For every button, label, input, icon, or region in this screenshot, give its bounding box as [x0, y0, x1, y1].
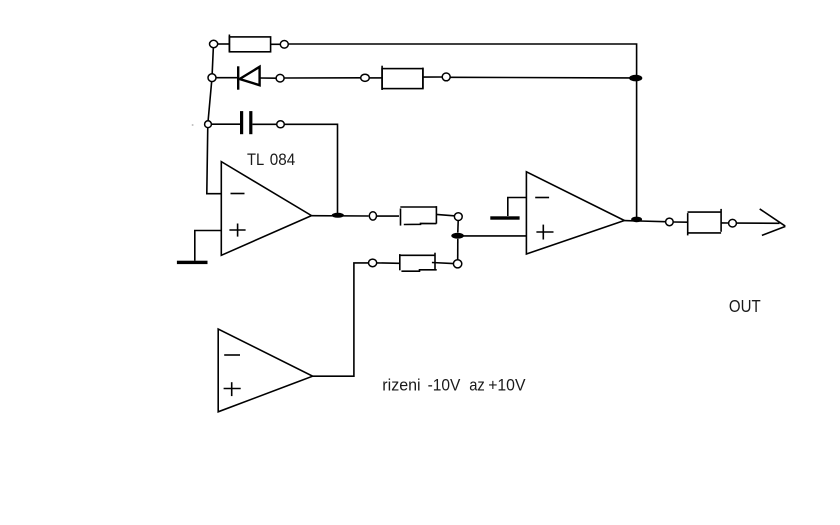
wire R4 to node L	[432, 263, 454, 264]
wire U2 inverting input to ground	[508, 198, 527, 217]
wire R3 to node J	[436, 214, 454, 215]
stray mark	[192, 124, 194, 125]
resistor R5	[688, 209, 722, 236]
node J	[454, 213, 462, 221]
wire node E to R2	[369, 77, 382, 79]
node B	[280, 41, 288, 49]
node G	[205, 121, 212, 128]
node I	[369, 212, 376, 220]
node N	[666, 218, 674, 226]
capacitor C1	[242, 111, 251, 134]
wire node B along top and down right bus to U2 output	[288, 44, 636, 219]
junction dot K	[451, 233, 464, 239]
ground	[177, 261, 208, 264]
svg-text:az: az	[469, 375, 485, 394]
node C	[208, 74, 216, 82]
node F	[442, 73, 450, 81]
wire C1 to node H	[253, 123, 277, 125]
wire node J down to junction K	[457, 221, 459, 233]
wire node N to R5	[674, 221, 689, 223]
wire U2 output to node N	[624, 221, 665, 222]
wire node C to diode D1	[216, 77, 237, 79]
junction dot U1 output	[332, 213, 344, 218]
wire R1 to node B	[271, 43, 281, 45]
wire junction K to U2 non-inverting input	[458, 235, 526, 237]
resistor R4	[400, 253, 437, 272]
node M	[369, 259, 377, 267]
junction dot on right bus (diode row)	[629, 75, 642, 82]
resistor R3	[400, 206, 436, 226]
wire D1 to node D	[260, 77, 276, 79]
node O	[729, 219, 737, 227]
resistor R2	[382, 66, 423, 90]
wire U1 output to node I	[312, 215, 369, 217]
wire junction K down to node L	[457, 239, 459, 260]
wire left bus from node A down to U1 inverting input	[207, 44, 222, 194]
ground	[490, 216, 519, 219]
wire node H to feedback vertical	[285, 124, 338, 213]
wire node F to right bus junction	[450, 76, 629, 79]
resistor R1	[229, 35, 270, 52]
wire R5 to node O	[721, 222, 728, 224]
svg-text:OUT: OUT	[729, 296, 761, 316]
op-amp U2	[526, 172, 624, 254]
svg-text:TL: TL	[247, 150, 264, 169]
output arrow	[760, 209, 786, 236]
wire node G to capacitor C1	[212, 123, 241, 125]
wire node M to R4	[377, 262, 399, 264]
wire U1 non-inverting input to ground	[195, 231, 222, 261]
op-amp U1 (TL 084)	[221, 162, 311, 256]
op-amp U3	[218, 329, 312, 412]
svg-text:rizeni: rizeni	[382, 375, 420, 394]
node L	[453, 260, 461, 268]
wire node D to node E	[284, 77, 361, 79]
wire node O to arrow	[737, 222, 780, 224]
svg-text:084: 084	[270, 150, 295, 169]
wire node M to bottom op-amp output	[313, 263, 369, 376]
diode D1	[238, 66, 259, 89]
wire node I to R3	[377, 215, 399, 217]
node A	[210, 40, 218, 47]
node D	[276, 74, 284, 82]
node H	[277, 121, 285, 128]
svg-text:-10V: -10V	[428, 375, 461, 394]
svg-text:+10V: +10V	[488, 375, 526, 394]
junction dot U2 output	[631, 217, 642, 223]
wire R2 to node F	[423, 76, 442, 78]
wire top feedback row	[218, 43, 230, 45]
node E	[361, 74, 370, 81]
